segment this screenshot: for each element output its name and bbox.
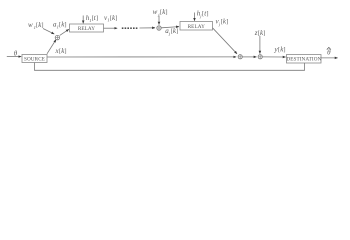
svg-text:]: ]	[226, 19, 228, 26]
svg-text:RELAY: RELAY	[78, 26, 95, 32]
svg-text:w: w	[153, 8, 158, 16]
svg-text:]: ]	[96, 15, 98, 22]
svg-text:]: ]	[206, 11, 208, 18]
svg-text:]: ]	[263, 30, 265, 37]
svg-text:w: w	[28, 21, 33, 29]
svg-text:RELAY: RELAY	[188, 24, 205, 30]
svg-text:θ: θ	[14, 49, 18, 57]
svg-text:]: ]	[64, 48, 66, 55]
svg-text:]: ]	[176, 28, 178, 35]
svg-text:]: ]	[283, 47, 285, 54]
svg-text:]: ]	[64, 22, 66, 29]
svg-text:]: ]	[165, 9, 167, 16]
svg-text:]: ]	[41, 22, 43, 29]
svg-text:DESTINATION: DESTINATION	[286, 56, 321, 62]
svg-text:]: ]	[115, 15, 117, 22]
svg-text:SOURCE: SOURCE	[24, 57, 45, 63]
